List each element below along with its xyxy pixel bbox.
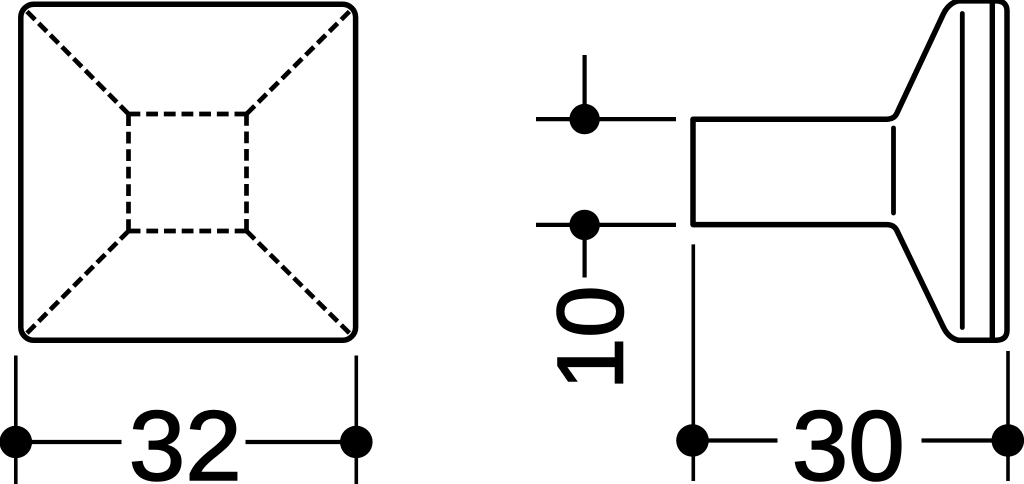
dim 10: bottom dot bbox=[569, 210, 599, 240]
dim 10: bottom extension line bbox=[536, 223, 676, 227]
front view: outer square of knob face, 32x32 bbox=[21, 4, 356, 340]
dim 10: top extension line bbox=[536, 117, 676, 121]
dim 32: left extension line bbox=[14, 356, 18, 484]
side view: cone/face junction line bbox=[960, 14, 965, 328]
side view: outer profile (stem + cone + head) bbox=[693, 1, 1007, 340]
front view: dashed diagonal bottom-right bbox=[247, 231, 350, 333]
dim 32: right extension line bbox=[354, 356, 358, 484]
dim 30: left dimension segment bbox=[693, 438, 778, 442]
svg-text:30: 30 bbox=[792, 390, 905, 484]
svg-text:32: 32 bbox=[129, 390, 242, 484]
dim 10: upper overshoot segment bbox=[582, 55, 586, 119]
front view: hidden inner square, right side (dashed) bbox=[244, 114, 249, 231]
dim 30: right dot bbox=[992, 424, 1024, 457]
front view: hidden inner square, bottom side (dashed) bbox=[129, 229, 247, 234]
dim 32: left dimension segment bbox=[16, 440, 122, 444]
front view: dashed diagonal top-left bbox=[27, 12, 129, 115]
side view: face edge line bbox=[990, 1, 995, 340]
dim 30: right dimension segment bbox=[922, 438, 1008, 442]
dim 30: left extension line bbox=[691, 244, 695, 481]
front view: dashed diagonal top-right bbox=[247, 12, 350, 115]
front view: hidden inner square, left side (dashed) bbox=[126, 114, 131, 231]
dim 30: left dot bbox=[676, 424, 709, 457]
front view: hidden inner square, top side (dashed) bbox=[129, 112, 247, 117]
side view: stem/cone junction line bbox=[891, 128, 896, 213]
dim 30: right extension line bbox=[1006, 351, 1010, 481]
dim 32: right dot bbox=[340, 426, 373, 459]
dim 10: top dot bbox=[569, 104, 599, 134]
svg-text:10: 10 bbox=[538, 285, 643, 390]
dim 10: lower overshoot segment bbox=[582, 225, 586, 278]
dim 32: left dot bbox=[0, 426, 32, 459]
dim 32: right dimension segment bbox=[246, 440, 357, 444]
front view: dashed diagonal bottom-left bbox=[27, 231, 129, 333]
